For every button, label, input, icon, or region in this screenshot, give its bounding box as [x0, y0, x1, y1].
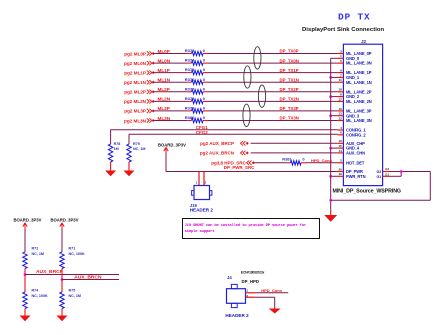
svg-text:pg2 ML2P: pg2 ML2P — [124, 90, 146, 95]
junction PWR_RTN — [329, 175, 332, 178]
connector J2 MINI_DP_Source_WSPRING box — [343, 44, 382, 185]
svg-text:CONFIG_2: CONFIG_2 — [346, 132, 366, 137]
wire down to R72 — [24, 229, 26, 252]
header J19 box — [194, 186, 210, 200]
svg-text:pg2 ML0P: pg2 ML0P — [124, 51, 146, 56]
pin 3 ML_LANE_0P — [338, 53, 344, 55]
svg-text:DP_TX0N: DP_TX0N — [280, 58, 299, 63]
svg-text:16: 16 — [338, 139, 342, 143]
pin 1 J4 — [246, 292, 256, 294]
svg-text:ML_LANE_1N: ML_LANE_1N — [346, 80, 372, 85]
svg-text:0: 0 — [203, 106, 206, 111]
wire GND_2 to gnd bus — [331, 96, 338, 98]
svg-text:pg2 ML1P: pg2 ML1P — [124, 70, 146, 75]
right pin G1 — [383, 175, 389, 177]
differential pair ellipse — [244, 66, 251, 88]
junction GND_1 — [329, 76, 332, 79]
wire GND_1 to gnd bus — [331, 76, 338, 78]
wire ML1N — [153, 81, 187, 83]
svg-text:R78: R78 — [114, 142, 121, 146]
svg-text:14: 14 — [338, 149, 342, 153]
resistor R71 NC, 100K — [60, 252, 64, 269]
pin 20 DP_PWR — [338, 171, 344, 173]
pin 4 CONFIG_1 — [338, 129, 344, 131]
pin 1 GND_0 — [338, 57, 344, 59]
J19 stub pin1 — [198, 172, 200, 186]
svg-text:NC, 100K: NC, 100K — [32, 294, 49, 298]
svg-text:9: 9 — [340, 69, 342, 73]
svg-text:pg2 ML3P: pg2 ML3P — [124, 109, 146, 114]
wire DP_TX2N — [209, 100, 338, 102]
svg-text:HPD_Conn: HPD_Conn — [311, 158, 332, 163]
ground under R75 — [57, 316, 68, 322]
svg-text:HEADER 2: HEADER 2 — [225, 313, 249, 318]
wire CFG2 — [129, 133, 338, 135]
junction GND_2 — [329, 95, 332, 98]
pin 10 ML_LANE_3P — [338, 110, 344, 112]
wire bottom return — [331, 199, 431, 201]
svg-text:20: 20 — [338, 167, 342, 171]
wire G1 up — [389, 175, 401, 177]
wire AUX_CHP — [251, 142, 338, 144]
pin 11 ML_LANE_1N — [338, 81, 344, 83]
wire ML3N — [153, 120, 187, 122]
ground under R74 — [20, 316, 31, 322]
svg-text:15: 15 — [338, 144, 342, 148]
svg-text:R379: R379 — [185, 106, 195, 111]
wire DP_PWR_SRC — [166, 171, 338, 173]
wire DP_TX1P — [209, 72, 338, 74]
wire DP_TX0N — [209, 62, 338, 64]
differential pair ellipse — [254, 47, 261, 69]
ground under R78 — [105, 171, 116, 177]
pin 7 GND_1 — [338, 76, 344, 78]
svg-text:ML2P: ML2P — [158, 87, 170, 92]
stub R74 top — [24, 275, 26, 293]
wire GND_3 to gnd bus — [331, 115, 338, 117]
svg-text:DP_TX2N: DP_TX2N — [280, 97, 299, 102]
svg-text:DP_TX1N: DP_TX1N — [280, 77, 299, 82]
gnd bus wire vertical — [330, 58, 332, 210]
resistor R79 NC 1M — [127, 144, 131, 162]
svg-text:ML0P: ML0P — [158, 49, 170, 54]
pin 8 GND_2 — [338, 96, 344, 98]
wire GND_0 to gnd bus — [331, 57, 338, 59]
junction GND_3 — [329, 114, 332, 117]
junction node AUX_BRCN — [61, 278, 64, 281]
svg-text:AUX_BRCP: AUX_BRCP — [36, 269, 64, 275]
pin 9 ML_LANE_1P — [338, 72, 344, 74]
pin 6 CONFIG_2 — [338, 134, 344, 136]
svg-text:10: 10 — [338, 107, 342, 111]
svg-text:ML_LANE_3N: ML_LANE_3N — [346, 118, 372, 123]
resistor R78 1M — [108, 144, 112, 162]
svg-text:NC, 1M: NC, 1M — [32, 252, 45, 256]
wire GND_4 to gnd bus — [331, 147, 338, 149]
differential pair ellipse — [243, 104, 250, 126]
svg-text:3: 3 — [340, 49, 342, 53]
svg-text:19: 19 — [338, 172, 342, 176]
wire ML1P — [153, 72, 187, 74]
svg-text:G2: G2 — [377, 170, 382, 174]
svg-text:R79: R79 — [133, 142, 140, 146]
svg-text:DP_TX2P: DP_TX2P — [280, 87, 299, 92]
wire ML0N — [153, 62, 187, 64]
svg-text:0: 0 — [302, 156, 305, 161]
svg-text:R72: R72 — [32, 247, 39, 251]
note box — [183, 219, 320, 239]
svg-text:R375: R375 — [185, 67, 195, 72]
wire J4 pin2 to gnd — [256, 296, 275, 298]
stub R71 bottom — [61, 269, 63, 280]
svg-text:HEADER 2: HEADER 2 — [190, 208, 214, 213]
resistor R72 NC, 1M — [23, 252, 27, 269]
svg-text:HPD_Conn: HPD_Conn — [261, 288, 282, 293]
svg-text:R380: R380 — [185, 115, 195, 120]
svg-text:7: 7 — [340, 73, 342, 77]
svg-text:2: 2 — [340, 159, 342, 163]
svg-text:G1: G1 — [377, 175, 382, 179]
svg-text:BOARD_3P3V: BOARD_3P3V — [51, 218, 79, 223]
svg-text:0: 0 — [203, 48, 206, 53]
svg-text:ML3P: ML3P — [158, 106, 170, 111]
svg-text:BOARD_3P3V: BOARD_3P3V — [158, 142, 186, 147]
ground under J4 — [269, 309, 281, 314]
wire down to R71 — [61, 229, 63, 252]
svg-text:pg2 AUX_BRCP: pg2 AUX_BRCP — [200, 141, 234, 146]
svg-text:DP TX: DP TX — [338, 12, 371, 23]
svg-text:0: 0 — [203, 86, 206, 91]
pin 17 ML_LANE_2N — [338, 100, 344, 102]
svg-text:DP_TX1P: DP_TX1P — [280, 68, 299, 73]
pin 15 GND_4 — [338, 147, 344, 149]
svg-text:6: 6 — [340, 131, 342, 135]
J19 stub pin2 — [203, 172, 205, 186]
stub R74 bottom — [24, 309, 26, 316]
wire CFG2 down to R79 — [128, 134, 130, 144]
wire DP_TX3P — [209, 110, 338, 112]
header J4 box — [227, 289, 246, 304]
ground under R79 — [124, 171, 135, 177]
svg-text:13: 13 — [338, 112, 342, 116]
svg-text:ML2N: ML2N — [158, 97, 171, 102]
svg-text:DP_PWR_SRC: DP_PWR_SRC — [224, 165, 255, 170]
svg-text:ML_LANE_0N: ML_LANE_0N — [346, 61, 372, 66]
svg-text:AUX_CHN: AUX_CHN — [346, 151, 365, 156]
svg-text:J19 SHUNT can be installed to: J19 SHUNT can be installed to provide DP… — [185, 223, 308, 228]
pin 16 AUX_CHP — [338, 142, 344, 144]
pin 12 ML_LANE_3N — [338, 120, 344, 122]
stub R72 bottom — [24, 269, 26, 275]
svg-text:8: 8 — [340, 93, 342, 97]
svg-text:R378: R378 — [185, 96, 195, 101]
svg-text:0: 0 — [203, 67, 206, 72]
stub R75 bottom — [61, 309, 63, 316]
svg-text:4: 4 — [340, 126, 342, 130]
wire HPD_Conn — [306, 162, 338, 164]
pin 2 HOT_DET — [338, 162, 344, 164]
wire DP_PWR return G2 — [389, 171, 430, 173]
pin 5 ML_LANE_0N — [338, 62, 344, 64]
svg-text:1: 1 — [196, 181, 198, 185]
wire DP_TX3N — [209, 120, 338, 122]
wire ML2N — [153, 100, 187, 102]
svg-text:R373: R373 — [185, 48, 195, 53]
wire ML2P — [153, 91, 187, 93]
wire node AUX_BRCN — [62, 279, 119, 281]
pin 18 ML_LANE_2P — [338, 91, 344, 93]
wire DP_TX2P — [209, 91, 338, 93]
svg-text:R75: R75 — [69, 288, 76, 292]
svg-text:ML1N: ML1N — [158, 78, 171, 83]
svg-text:DP_TX3P: DP_TX3P — [280, 106, 299, 111]
svg-text:0: 0 — [203, 96, 206, 101]
wire DP_TX0P — [209, 53, 338, 55]
wire PWR_RTN to gnd bus — [331, 175, 338, 177]
wire DP_TX1N — [209, 81, 338, 83]
svg-text:R374: R374 — [185, 58, 195, 63]
wire right vertical — [429, 172, 431, 201]
svg-text:18: 18 — [338, 88, 342, 92]
svg-text:ML_LANE_2N: ML_LANE_2N — [346, 99, 372, 104]
right pin G2 — [383, 171, 389, 173]
svg-text:R377: R377 — [185, 86, 195, 91]
wire ML3P — [153, 110, 187, 112]
svg-text:NC, 1M: NC, 1M — [69, 294, 82, 298]
svg-text:1M: 1M — [114, 147, 119, 151]
R78 stub — [110, 162, 112, 171]
wire AUX_CHN — [251, 152, 338, 154]
svg-text:MINI_DP_Source_WSPRING: MINI_DP_Source_WSPRING — [333, 188, 401, 194]
junction GND_4 — [329, 147, 332, 150]
svg-text:J4: J4 — [227, 275, 232, 280]
svg-text:ML3N: ML3N — [158, 116, 171, 121]
stub R75 top — [61, 280, 63, 293]
svg-text:11: 11 — [339, 78, 343, 82]
svg-text:DP_TX3N: DP_TX3N — [280, 116, 299, 121]
svg-text:0: 0 — [203, 77, 206, 82]
junction G1/G2 — [400, 170, 403, 173]
svg-text:CFG2: CFG2 — [196, 130, 208, 135]
svg-text:12: 12 — [338, 116, 342, 120]
svg-text:HOT_DET: HOT_DET — [346, 160, 365, 165]
R79 stub — [128, 162, 130, 171]
svg-text:pg2 ML1N: pg2 ML1N — [124, 80, 147, 85]
svg-text:pg2 ML3N: pg2 ML3N — [124, 118, 147, 123]
svg-text:5: 5 — [340, 59, 342, 63]
svg-text:R71: R71 — [69, 247, 76, 251]
wire BOARD_3P3V down — [165, 154, 167, 172]
svg-text:DP_TX0P: DP_TX0P — [280, 49, 299, 54]
differential pair ellipse — [258, 85, 265, 107]
pin 2 J4 — [246, 296, 256, 298]
resistor R75 NC, 1M — [60, 292, 64, 309]
svg-text:ECN#18062023x: ECN#18062023x — [241, 271, 265, 275]
wire node AUX_BRCP — [25, 274, 119, 276]
wire ML0P — [153, 53, 187, 55]
pin 19 PWR_RTN — [338, 175, 344, 177]
wire CFG1 — [111, 129, 338, 131]
svg-text:R74: R74 — [32, 288, 40, 292]
pin 14 AUX_CHN — [338, 152, 344, 154]
wire HPD_Conn from J4 — [256, 292, 289, 294]
resistor R74 NC, 100K — [23, 292, 27, 309]
gnd bus red stub — [330, 210, 332, 215]
svg-text:17: 17 — [338, 97, 342, 101]
svg-text:G1: G1 — [385, 172, 389, 176]
svg-text:NC, 100K: NC, 100K — [69, 252, 86, 256]
svg-text:1: 1 — [246, 289, 248, 293]
junction gnd bus / pwr return bottom wire — [329, 199, 332, 202]
wire HPD_SRC — [253, 162, 287, 164]
svg-text:ML1P: ML1P — [158, 68, 170, 73]
wire CFG1 down to R78 — [110, 130, 112, 144]
svg-text:DP_HPD: DP_HPD — [242, 279, 259, 284]
svg-text:J2: J2 — [361, 39, 367, 44]
svg-text:R376: R376 — [185, 77, 195, 82]
svg-text:DisplayPort Sink Connection: DisplayPort Sink Connection — [302, 27, 385, 33]
svg-text:BOARD_3P3V: BOARD_3P3V — [14, 218, 42, 223]
svg-text:1: 1 — [340, 54, 342, 58]
junction node AUX_BRCP — [24, 273, 27, 276]
svg-text:0: 0 — [203, 115, 206, 120]
svg-text:pg2 AUX_BRCN: pg2 AUX_BRCN — [200, 151, 234, 156]
svg-text:G2: G2 — [385, 167, 389, 171]
svg-text:ML0N: ML0N — [158, 58, 171, 63]
ground symbol under J2 — [324, 215, 337, 222]
svg-text:PWR_RTN: PWR_RTN — [346, 174, 366, 179]
svg-text:NC, 1M: NC, 1M — [133, 147, 146, 151]
svg-text:simple support: simple support — [185, 229, 215, 234]
svg-text:pg2 ML0N: pg2 ML0N — [124, 61, 147, 66]
pin 13 GND_3 — [338, 115, 344, 117]
svg-text:AUX_BRCN: AUX_BRCN — [74, 275, 102, 281]
svg-text:pg2 ML2N: pg2 ML2N — [124, 99, 147, 104]
svg-text:2: 2 — [205, 181, 207, 185]
svg-text:0: 0 — [203, 58, 206, 63]
